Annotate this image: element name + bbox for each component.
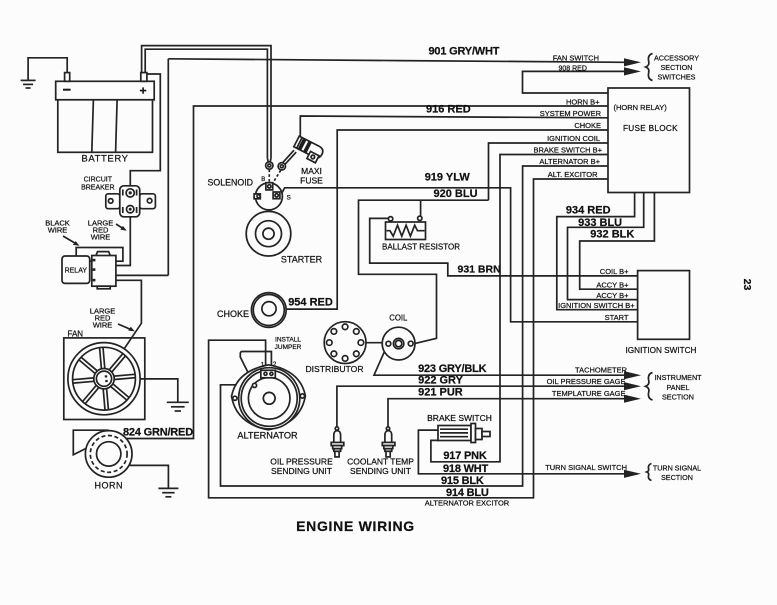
svg-text:STARTER: STARTER [281,255,323,265]
arrow fan switch [624,58,641,66]
svg-text:HORN B+: HORN B+ [566,97,600,106]
arrow large red wire pointer upper [116,224,127,231]
svg-text:919 YLW: 919 YLW [425,172,471,184]
dashed lead ring2 to B terminal [273,170,281,183]
svg-text:PANEL: PANEL [666,383,689,392]
svg-text:SWITCHES: SWITCHES [658,73,696,82]
starter [246,211,291,256]
wire 918 WHT brake switch to turn signal switch [418,430,624,474]
wire 917 PNK brake switch feed from BRAKE SWITCH B+ [431,155,608,462]
svg-text:COIL: COIL [389,314,408,323]
svg-text:ACCY B+: ACCY B+ [596,280,629,289]
svg-text:901 GRY/WHT: 901 GRY/WHT [429,46,500,58]
svg-text:914 BLU: 914 BLU [446,487,489,499]
wire 915 BLK alternator to ALTERNATOR B+ [221,166,609,486]
svg-text:ALT. EXCITOR: ALT. EXCITOR [548,170,598,179]
svg-text:IGNITION COIL: IGNITION COIL [547,134,600,143]
horn [73,430,132,477]
wire 933 BLU fuse block to ACCY B+ [568,193,644,300]
wire ignition coil feed vertical [489,143,609,200]
svg-text:FAN SWITCH: FAN SWITCH [553,53,599,62]
coil [382,327,415,360]
svg-text:TACHOMETER: TACHOMETER [575,365,628,374]
svg-text:918 WHT: 918 WHT [443,463,489,475]
ring terminal 2 to maxi fuse [278,150,296,170]
svg-text:COIL B+: COIL B+ [600,267,629,276]
svg-text:23: 23 [741,279,753,291]
svg-text:ACCESSORY: ACCESSORY [654,54,699,63]
svg-text:INSTRUMENT: INSTRUMENT [654,373,702,382]
svg-text:FUSE BLOCK: FUSE BLOCK [623,124,678,133]
arrow large red wire pointer lower [118,324,135,331]
svg-text:RELAY: RELAY [65,267,88,274]
svg-text:WIRE: WIRE [93,321,113,330]
svg-text:JUMPER: JUMPER [275,344,302,351]
ignition switch [638,271,690,340]
svg-text:923 GRY/BLK: 923 GRY/BLK [418,363,487,375]
wire jumper terminal to pin 2 [240,352,271,384]
COMPONENTS-LAYER [56,54,690,481]
svg-text:BALLAST RESISTOR: BALLAST RESISTOR [382,243,460,252]
fan [64,338,145,420]
wire 914 BLU alternator excitor pin 1 [209,179,608,498]
wire 901 GRY/WHT vertical + fan switch line [167,59,169,276]
svg-text:DISTRIBUTOR: DISTRIBUTOR [305,364,363,374]
wire 931 BRN ballast left to ignition switch COIL B+ [370,218,638,276]
svg-text:IGNITION SWITCH B+: IGNITION SWITCH B+ [558,301,635,310]
svg-text:933 BLU: 933 BLU [578,217,622,229]
solenoid [254,183,282,210]
fuse block [608,88,690,193]
svg-text:SECTION: SECTION [661,473,693,482]
ground battery [21,80,36,88]
maxi fuse [292,136,325,164]
wire 916 RED maxi fuse to system power [299,116,608,140]
wire 908 RED u-turn [523,71,625,93]
svg-text:START: START [605,313,629,322]
wire distributor to coil [366,342,384,344]
svg-text:921 PUR: 921 PUR [418,387,463,399]
coolant temp sending unit [382,427,395,457]
dashed lead ring1 to B terminal [268,170,270,184]
svg-text:BREAKER: BREAKER [81,185,114,192]
wire relay to fan motor (large red wire) [108,280,142,373]
svg-text:SECTION: SECTION [661,63,693,72]
svg-text:SENDING UNIT: SENDING UNIT [350,466,411,476]
brace instrument panel section [646,373,653,401]
arrow turn signal switch [624,470,641,478]
svg-text:824 GRN/RED: 824 GRN/RED [123,427,193,439]
svg-text:916 RED: 916 RED [426,104,471,116]
wire 934 RED fuse block to IGNITION SWITCH B+ [557,193,638,310]
svg-text:WIRE: WIRE [48,226,68,235]
svg-text:IGNITION SWITCH: IGNITION SWITCH [626,346,697,355]
svg-text:934 RED: 934 RED [566,205,611,217]
svg-text:ALTERNATOR EXCITOR: ALTERNATOR EXCITOR [425,499,510,508]
svg-text:WIRE: WIRE [91,233,111,242]
svg-text:920 BLU: 920 BLU [434,188,478,200]
relay [62,248,123,289]
wire 921 PUR coolant sender to gage [388,399,624,427]
wire battery cable to solenoid (double line) [142,46,271,159]
TEXT-LAYER [45,46,753,535]
wire 920 BLU ballast and coil feed [359,200,489,344]
svg-text:1: 1 [261,362,265,369]
svg-text:COOLANT TEMP: COOLANT TEMP [347,457,414,467]
svg-text:954 RED: 954 RED [288,297,333,309]
circuit breaker [106,186,156,217]
arrow 908 red [624,67,641,75]
svg-text:CHOKE: CHOKE [574,121,601,130]
svg-text:MAXI: MAXI [301,166,322,176]
arrow tachometer [624,371,641,379]
svg-text:SENDING UNIT: SENDING UNIT [271,466,332,476]
distributor [324,322,366,364]
ground horn [158,488,178,496]
choke [251,293,286,328]
svg-text:SYSTEM POWER: SYSTEM POWER [540,109,602,118]
svg-text:B: B [261,177,265,183]
WIRES-LAYER [21,46,655,498]
svg-text:SOLENOID: SOLENOID [208,178,253,188]
svg-text:INSTALL: INSTALL [275,337,301,344]
ballast resistor [386,216,426,239]
svg-text:OIL PRESSURE GAGE: OIL PRESSURE GAGE [547,377,626,386]
wire 923 GRY/BLK coil to tachometer [374,346,624,375]
wire 954 RED choke feed [286,130,608,309]
arrow temperature gage [624,395,641,403]
brake switch [438,424,490,443]
svg-text:TURN SIGNAL SWITCH: TURN SIGNAL SWITCH [545,463,627,472]
battery [56,73,155,153]
wire relay feed thick [116,274,168,276]
svg-text:BATTERY: BATTERY [81,154,128,165]
svg-text:932 BLK: 932 BLK [590,229,634,241]
svg-text:917 PNK: 917 PNK [443,450,486,462]
wire battery negative to ground [28,58,67,80]
svg-text:CHOKE: CHOKE [217,309,249,319]
alternator [232,365,306,430]
wire horn to ground [130,465,169,488]
svg-text:CIRCUIT: CIRCUIT [84,177,113,184]
svg-text:ACCY B+: ACCY B+ [596,291,629,300]
svg-text:BRAKE SWITCH: BRAKE SWITCH [427,413,492,423]
svg-text:922 GRY: 922 GRY [418,375,464,387]
svg-text:(HORN RELAY): (HORN RELAY) [614,103,668,112]
arrow oil pressure gage [624,382,641,390]
oil pressure sending unit [331,427,344,457]
svg-text:ALTERNATOR: ALTERNATOR [237,431,298,441]
wire 919 YLW solenoid S to START [281,188,638,322]
ground fan [167,402,189,411]
svg-text:908 RED: 908 RED [559,66,587,73]
wire battery plus to circuit breaker [130,74,160,186]
wire circuit breaker to relay [116,217,130,266]
svg-text:2: 2 [273,361,277,368]
svg-text:SECTION: SECTION [662,392,694,401]
wire 932 BLK fuse block to ACCY B+ [580,193,655,290]
wire ballast right terminal drop [420,200,422,216]
svg-text:915 BLK: 915 BLK [441,475,484,487]
ring terminal 1 on solenoid B [266,162,273,169]
svg-text:TURN SIGNAL: TURN SIGNAL [653,463,701,472]
svg-text:HORN: HORN [95,481,124,491]
arrow black wire pointer [63,236,80,246]
svg-text:FAN: FAN [68,330,84,339]
svg-text:OIL PRESSURE: OIL PRESSURE [270,457,333,467]
svg-text:S: S [287,195,292,202]
svg-text:BRAKE SWITCH B+: BRAKE SWITCH B+ [533,145,602,154]
wire 922 GRY oil sender to gage [337,386,624,427]
svg-text:931 BRN: 931 BRN [458,264,501,276]
wire fan to ground [114,379,178,402]
svg-text:FUSE: FUSE [300,176,323,186]
svg-text:ALTERNATOR B+: ALTERNATOR B+ [539,157,600,166]
wire 924 GRN/RED horn feed from fuse block HORN B+ [126,106,608,439]
svg-text:TEMPLATURE GAGE: TEMPLATURE GAGE [552,389,626,398]
brace turn signal section [647,464,652,481]
svg-text:ENGINE WIRING: ENGINE WIRING [296,518,415,534]
brace accessory section [646,54,653,81]
